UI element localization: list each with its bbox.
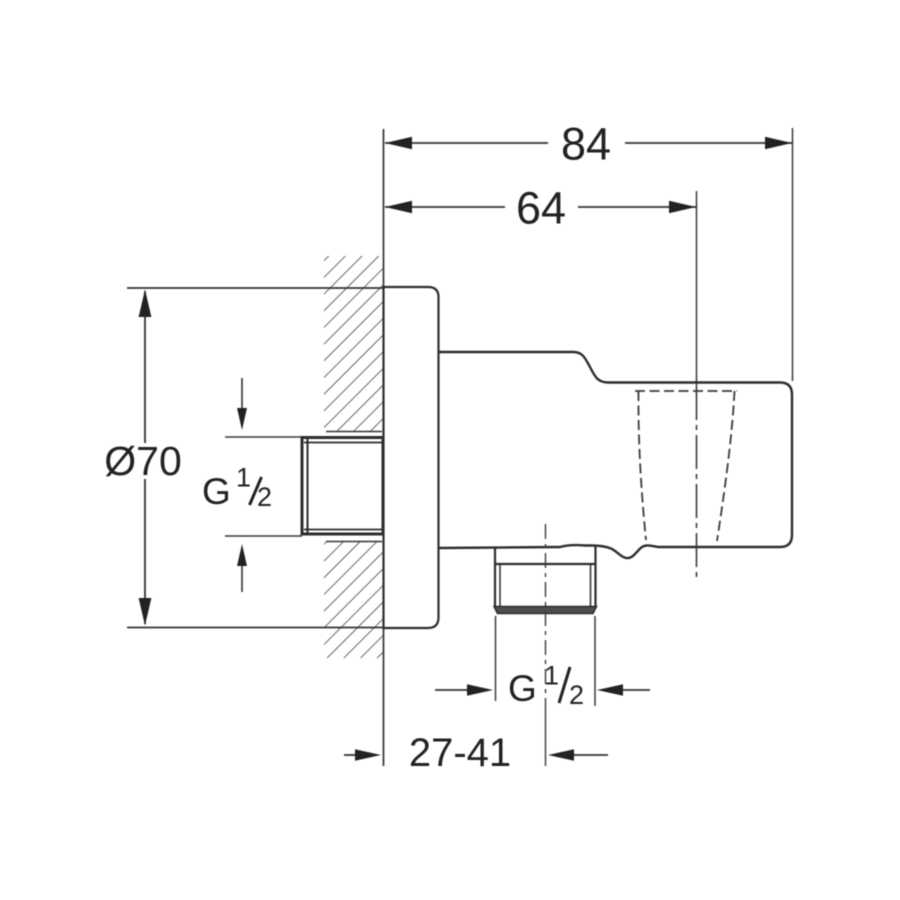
- svg-text:Ø70: Ø70: [104, 438, 182, 484]
- svg-text:1: 1: [544, 661, 559, 691]
- svg-text:27-41: 27-41: [409, 731, 511, 775]
- svg-text:84: 84: [561, 119, 611, 170]
- svg-text:G: G: [508, 668, 537, 709]
- svg-text:1: 1: [236, 463, 251, 493]
- svg-text:2: 2: [257, 482, 272, 512]
- svg-text:64: 64: [516, 183, 566, 234]
- svg-text:G: G: [202, 471, 231, 512]
- svg-text:2: 2: [569, 680, 584, 710]
